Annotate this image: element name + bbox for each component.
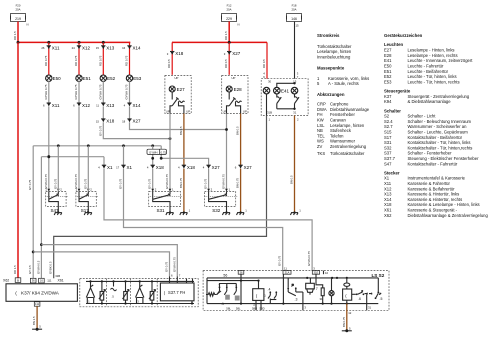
svg-text:Stromkreis: Stromkreis <box>317 33 340 38</box>
E28 gray output to S32 pin 1 <box>222 114 228 192</box>
boxed wire label GYWH 0.75 <box>147 149 166 154</box>
E27 gray output to S31 pin 1 <box>165 114 170 192</box>
svg-text:31A: 31A <box>285 271 290 275</box>
svg-text:E52: E52 <box>107 76 116 81</box>
svg-text:E53: E53 <box>133 76 142 81</box>
fuse F18 20A <box>287 4 302 28</box>
svg-text:GYWH 0.75: GYWH 0.75 <box>74 84 78 99</box>
svg-text:TKS: TKS <box>317 151 325 156</box>
S2 pin 12 ground wire BN 0.75 <box>342 304 352 333</box>
svg-text:Carphone: Carphone <box>330 102 349 107</box>
svg-text:11: 11 <box>96 104 99 108</box>
svg-text:E51: E51 <box>384 69 392 74</box>
svg-text:Warnsummer: Warnsummer <box>330 139 356 144</box>
svg-text:Gerätekurzzeichen: Gerätekurzzeichen <box>384 33 423 38</box>
svg-text:RD 0.75: RD 0.75 <box>44 55 48 66</box>
svg-text:S47: S47 <box>384 161 392 166</box>
svg-text:UP: UP <box>243 110 247 114</box>
svg-text:BN 0.75: BN 0.75 <box>236 177 240 188</box>
legend right column <box>384 33 488 218</box>
svg-text:Kontaktschalter - Beifahrertür: Kontaktschalter - Beifahrertür <box>408 135 463 140</box>
svg-text:Leuchte - Tür, hinten, links: Leuchte - Tür, hinten, links <box>408 74 457 79</box>
svg-text:Leuchte - Innenraum, zeitverzö: Leuchte - Innenraum, zeitverzögert <box>408 58 474 63</box>
svg-text:Warnsummer - Scheinwerfer an: Warnsummer - Scheinwerfer an <box>408 124 468 129</box>
svg-text:X13: X13 <box>384 192 392 197</box>
svg-text:X62: X62 <box>3 278 9 282</box>
svg-text:Instrumententafel & Karosserie: Instrumententafel & Karosserie <box>408 176 466 181</box>
svg-text:Innenbeleuchtung: Innenbeleuchtung <box>317 55 351 60</box>
svg-text:A - Säule, rechts: A - Säule, rechts <box>328 81 359 86</box>
svg-text:GY 0.75: GY 0.75 <box>28 179 32 190</box>
svg-text:KW: KW <box>317 118 324 123</box>
svg-text:E27: E27 <box>177 87 186 92</box>
door contact switch S31 <box>149 188 182 216</box>
svg-text:GYWH: GYWH <box>149 150 157 154</box>
svg-text:X11: X11 <box>384 181 392 186</box>
svg-text:S2: S2 <box>384 114 390 119</box>
wire BK from F18 down to E41 pin 15 <box>294 22 296 79</box>
gray jog wire y=158.3 to X27 and S32 pin 2 <box>160 146 220 192</box>
svg-text:Telefon: Telefon <box>330 133 344 138</box>
gray wire GY 0.5 to FH pin 6 <box>33 252 169 276</box>
svg-text:X61: X61 <box>58 278 64 282</box>
svg-text:X11: X11 <box>52 103 60 108</box>
fuse F20 20A <box>11 4 29 27</box>
svg-text:Karosserie & Steuergerät -: Karosserie & Steuergerät - <box>408 208 458 213</box>
svg-text:X1: X1 <box>384 176 390 181</box>
svg-text:GY 0.75: GY 0.75 <box>278 255 282 266</box>
lamp column E50 <box>41 42 61 191</box>
S2 illumination unit with oval <box>343 278 352 304</box>
svg-text:B: B <box>17 278 19 282</box>
svg-text:ZV: ZV <box>317 144 323 149</box>
svg-text:RD 1.5: RD 1.5 <box>224 31 228 40</box>
svg-text:X12: X12 <box>82 46 91 51</box>
svg-text:K37/ K94 ZV/DWA: K37/ K94 ZV/DWA <box>21 291 60 296</box>
FH cell switch .5 <box>111 280 130 304</box>
svg-text:CRP: CRP <box>317 102 326 107</box>
svg-text:58D: 58D <box>260 307 265 311</box>
red branch to E41 pin 30 <box>262 42 299 79</box>
svg-text:20A: 20A <box>292 8 297 12</box>
svg-text:N: N <box>27 23 29 27</box>
svg-text:E41: E41 <box>384 58 392 63</box>
svg-text:GY 0.75: GY 0.75 <box>148 178 152 189</box>
red bus B <box>172 41 267 44</box>
S2 pin 31A <box>283 266 291 274</box>
svg-text:X18: X18 <box>175 51 184 56</box>
svg-text:X18: X18 <box>384 202 392 207</box>
svg-text:GYWH 0.75: GYWH 0.75 <box>165 174 169 189</box>
svg-text:Leselampe, hinten: Leselampe, hinten <box>317 49 352 54</box>
S2 internal rails <box>207 277 378 305</box>
svg-text:LS S2: LS S2 <box>372 273 385 278</box>
K37 bottom pin 111 and ground wire BN 1.5 <box>32 302 42 331</box>
svg-text:GYWH 0.5: GYWH 0.5 <box>36 260 40 274</box>
svg-text:S2.4: S2.4 <box>384 119 393 124</box>
svg-text:GY 0.75: GY 0.75 <box>204 178 208 189</box>
svg-text:X18: X18 <box>106 119 115 124</box>
svg-text:Karosserie & Fahrertür: Karosserie & Fahrertür <box>408 181 451 186</box>
svg-text:RD 0.75: RD 0.75 <box>98 55 102 66</box>
svg-text:E52: E52 <box>384 74 392 79</box>
svg-text:RD 0.5: RD 0.5 <box>224 59 228 68</box>
svg-text:X18: X18 <box>187 165 196 170</box>
svg-text:E28: E28 <box>384 53 392 58</box>
light switch LS S2 dashed box <box>203 271 389 311</box>
svg-text:BN 0.75: BN 0.75 <box>179 177 183 188</box>
svg-text:E27: E27 <box>384 48 392 53</box>
legend left column <box>317 33 370 156</box>
gray wire line D corner down to K37 pin 16 <box>36 157 42 279</box>
svg-text:Schalter - Beleuchtung Innenra: Schalter - Beleuchtung Innenraum <box>408 119 472 124</box>
svg-text:Caravan: Caravan <box>330 118 346 123</box>
svg-text:31B: 31B <box>267 110 272 114</box>
svg-text:Türkontaktschalter: Türkontaktschalter <box>330 151 365 156</box>
wire from line D down through X1 to S2 pin 31E <box>98 157 312 271</box>
E41 gray output 31B down-left to K37 <box>49 116 271 279</box>
svg-text:15: 15 <box>296 24 300 28</box>
svg-text:X12: X12 <box>82 103 91 108</box>
svg-text:X13: X13 <box>106 46 115 51</box>
svg-text:⟨: ⟨ <box>15 291 17 297</box>
svg-text:219: 219 <box>15 17 21 21</box>
svg-text:Fensterheber: Fensterheber <box>330 112 356 117</box>
svg-text:Leuchten: Leuchten <box>384 42 403 47</box>
svg-text:17: 17 <box>116 166 120 170</box>
S2 element 2 (illumination box) <box>252 280 265 311</box>
svg-text:26: 26 <box>41 46 45 50</box>
svg-text:Kontaktschalter - Fahrertür: Kontaktschalter - Fahrertür <box>408 161 458 166</box>
svg-text:11: 11 <box>284 266 287 270</box>
svg-text:Kontaktschalter - Tür, hinten,: Kontaktschalter - Tür, hinten,rechts <box>408 145 473 150</box>
svg-text:BN 0.5: BN 0.5 <box>236 126 240 135</box>
wire line C to S17 pin 2 <box>83 146 88 192</box>
svg-text:36: 36 <box>32 279 35 283</box>
svg-text:E51: E51 <box>83 76 92 81</box>
svg-text:GY 0.5: GY 0.5 <box>28 265 32 274</box>
svg-text:31E: 31E <box>314 271 319 275</box>
svg-text:E28: E28 <box>234 87 243 92</box>
svg-text:GYWH 0.75: GYWH 0.75 <box>44 84 48 99</box>
svg-text:58L: 58L <box>226 306 231 310</box>
svg-text:& Diebstahlwarnanlage: & Diebstahlwarnanlage <box>408 99 452 104</box>
svg-text:Karosserie & Beifahrertür: Karosserie & Beifahrertür <box>408 186 456 191</box>
svg-text:Leselampe - Hinten, rechts: Leselampe - Hinten, rechts <box>408 53 458 58</box>
control unit K37/K94 ZV/DWA <box>6 278 77 301</box>
svg-text:GY 0.75: GY 0.75 <box>83 178 87 189</box>
svg-text:20A: 20A <box>16 8 21 12</box>
svg-text:RD 0.75: RD 0.75 <box>125 55 129 66</box>
svg-text:X61: X61 <box>384 208 392 213</box>
svg-text:Türkontaktschalter: Türkontaktschalter <box>317 44 352 49</box>
svg-text:Diebstahlwarnanlage & Zentralv: Diebstahlwarnanlage & Zentralverriegelun… <box>408 213 489 218</box>
svg-text:.6: .6 <box>358 297 361 301</box>
reading lamp E28 (dashed box with switch) <box>222 76 248 114</box>
red branch to X18 / E27 <box>167 42 184 74</box>
svg-text:E53: E53 <box>384 79 392 84</box>
wire from line C down through X18 to S31 pin 2 <box>147 146 164 192</box>
svg-text:Steuergeräte: Steuergeräte <box>384 89 411 94</box>
svg-text:X27: X27 <box>244 165 253 170</box>
lamp column E52 <box>96 42 172 140</box>
svg-text:Leselampe, hinten: Leselampe, hinten <box>330 123 365 128</box>
svg-text:Karosserie & Hintertür, links: Karosserie & Hintertür, links <box>408 192 460 197</box>
FH cell rails <box>86 281 194 303</box>
svg-text:16: 16 <box>40 279 43 283</box>
svg-text:20A: 20A <box>227 8 232 12</box>
svg-text:12: 12 <box>348 311 352 315</box>
svg-text:⟨: ⟨ <box>164 290 166 295</box>
svg-text:WS: WS <box>317 139 324 144</box>
svg-text:S17: S17 <box>384 135 392 140</box>
svg-text:Schalter - Licht: Schalter - Licht <box>408 114 437 119</box>
svg-text:Karosserie, vorn, links: Karosserie, vorn, links <box>328 76 369 81</box>
svg-text:0.75: 0.75 <box>161 150 167 154</box>
svg-text:Abkürzungen: Abkürzungen <box>317 92 345 97</box>
svg-text:GYWH 0.75: GYWH 0.75 <box>125 84 129 99</box>
svg-text:X18: X18 <box>156 165 165 170</box>
svg-text:X27: X27 <box>133 119 142 124</box>
svg-text:LSL: LSL <box>317 123 325 128</box>
svg-text:X27: X27 <box>212 165 221 170</box>
svg-text:Schalter: Schalter <box>384 108 401 113</box>
lamp column E51 <box>72 42 92 191</box>
S2 switch .3 <box>287 278 306 310</box>
gray wire line C corner down to K37 pin 36 <box>28 146 34 278</box>
wire line C to S47 pin 2 <box>53 146 58 192</box>
E27 brown output through X18 to ground <box>178 114 195 216</box>
svg-text:GY 0.75: GY 0.75 <box>53 178 57 189</box>
svg-text:30: 30 <box>268 80 272 84</box>
S2 switch .4 <box>264 287 277 303</box>
fuse F12 20A <box>222 4 240 27</box>
svg-text:36: 36 <box>240 271 243 275</box>
svg-text:Diebstahlwarnanlage: Diebstahlwarnanlage <box>330 107 370 112</box>
svg-text:Stufenheck: Stufenheck <box>330 128 352 133</box>
svg-text:229: 229 <box>226 17 232 21</box>
svg-text:Kontaktschalter - Tür, hinten,: Kontaktschalter - Tür, hinten, links <box>408 140 471 145</box>
svg-text:31: 31 <box>368 306 372 310</box>
svg-text:Karosserie & Hintertür, rechts: Karosserie & Hintertür, rechts <box>408 197 463 202</box>
gray bus line C (y=145.8) <box>33 144 161 147</box>
svg-text:Steuergerät - Zentralverriegel: Steuergerät - Zentralverriegelung <box>408 94 470 99</box>
S2 31A internal wire <box>282 274 284 303</box>
S2 headlight rotary switch <box>206 271 244 311</box>
svg-text:UP: UP <box>175 76 179 80</box>
svg-text:E50: E50 <box>384 64 392 69</box>
svg-text:31B: 31B <box>55 274 60 278</box>
svg-text:Leselampe - Hinten, links: Leselampe - Hinten, links <box>408 48 455 53</box>
window lifter assembly dashed box <box>80 279 198 307</box>
svg-text:RD 0.5: RD 0.5 <box>262 59 266 68</box>
S2 switch .6 <box>352 291 373 311</box>
svg-text:.3: .3 <box>295 298 298 302</box>
S2 dimmer plug element 7 <box>306 278 318 295</box>
wire RD 1.5 from F12 to bus <box>224 22 229 43</box>
svg-text:BN 0.75: BN 0.75 <box>342 316 346 327</box>
svg-text:Zentralverriegelung: Zentralverriegelung <box>330 144 367 149</box>
svg-text:S31: S31 <box>384 140 392 145</box>
svg-text:X13: X13 <box>106 103 115 108</box>
svg-text:RD 1.5: RD 1.5 <box>13 31 17 40</box>
svg-text:K37: K37 <box>384 94 392 99</box>
svg-text:X14: X14 <box>384 197 392 202</box>
svg-text:BN 0.5: BN 0.5 <box>290 175 294 184</box>
interior lamp E41 (dashed box, 3 lamps, 2 switches) <box>261 79 308 116</box>
svg-text:Leuchte - Tür, hinten, rechts: Leuchte - Tür, hinten, rechts <box>408 79 460 84</box>
door contact switch S47 <box>45 188 67 216</box>
svg-text:31: 31 <box>293 110 297 114</box>
svg-text:31: 31 <box>320 297 324 301</box>
svg-text:15: 15 <box>96 46 100 50</box>
svg-text:S32: S32 <box>384 145 392 150</box>
svg-text:GY 0.75: GY 0.75 <box>165 261 169 272</box>
svg-text:BN 0.5: BN 0.5 <box>179 126 183 135</box>
svg-text:X1: X1 <box>107 165 113 170</box>
red branch to X27 / E28 <box>224 42 241 74</box>
svg-text:7: 7 <box>316 287 318 291</box>
reading lamp E27 (dashed box with switch) <box>165 76 191 114</box>
E41 brown output 31 to ground <box>290 116 302 216</box>
svg-text:Schalter - Leuchte, Gepäckraum: Schalter - Leuchte, Gepäckraum <box>408 130 469 135</box>
svg-text:S2.7: S2.7 <box>384 124 393 129</box>
svg-text:BN 1.5: BN 1.5 <box>32 316 36 325</box>
svg-text:X1: X1 <box>127 165 133 170</box>
wire from line C down through X1 to S2 pin 31A <box>116 146 283 271</box>
svg-text:111: 111 <box>47 278 52 282</box>
svg-text:RD 0.75: RD 0.75 <box>74 55 78 66</box>
svg-text:Karosserie & Leselampe - Hinte: Karosserie & Leselampe - Hinten, links <box>408 202 480 207</box>
svg-text:X12: X12 <box>384 186 392 191</box>
connector X62 pin B <box>3 278 21 283</box>
svg-text:X14: X14 <box>133 103 142 108</box>
svg-text:S15: S15 <box>384 130 392 135</box>
svg-text:16: 16 <box>122 46 126 50</box>
svg-text:X11: X11 <box>52 46 60 51</box>
svg-text:S37.7 FH: S37.7 FH <box>168 290 185 295</box>
svg-text:NB: NB <box>317 128 323 133</box>
S2 instrument lamp <box>329 278 334 304</box>
S2 31E internal wire to resistor <box>316 274 324 303</box>
svg-text:GYWH 0.75: GYWH 0.75 <box>222 174 226 189</box>
svg-text:K94: K94 <box>384 99 392 104</box>
svg-text:58L: 58L <box>236 306 241 310</box>
svg-text:N: N <box>238 23 240 27</box>
svg-text:S31: S31 <box>157 208 166 213</box>
red bus A <box>17 41 131 44</box>
svg-text:GYWH 0.75: GYWH 0.75 <box>307 251 311 266</box>
E28 brown output through X27 to ground <box>235 114 252 216</box>
svg-text:⟨: ⟨ <box>256 293 258 298</box>
svg-text:Steuerung - Elektrischer Fenst: Steuerung - Elektrischer Fensterheber <box>408 156 480 161</box>
svg-text:⟨: ⟨ <box>345 294 347 299</box>
svg-text:15: 15 <box>96 119 100 123</box>
svg-text:Massepunkte: Massepunkte <box>317 66 345 71</box>
svg-text:S32: S32 <box>212 208 221 213</box>
svg-text:111: 111 <box>35 302 40 306</box>
door contact switch S17 <box>75 188 97 216</box>
door contact switch S32 <box>205 188 238 216</box>
svg-text:Stecker: Stecker <box>384 170 400 175</box>
svg-text:GYBK 0.5: GYBK 0.5 <box>49 261 53 274</box>
svg-text:TEL: TEL <box>317 133 325 138</box>
svg-text:DWA: DWA <box>317 107 327 112</box>
svg-text:10: 10 <box>325 271 329 275</box>
svg-text:GY 0.75: GY 0.75 <box>119 178 123 189</box>
svg-text:GYWH 0.75: GYWH 0.75 <box>172 257 176 272</box>
svg-text:UP: UP <box>166 110 170 114</box>
gray wire GYWH 0.5 to FH pin 7 <box>41 245 177 277</box>
svg-text:S37.7: S37.7 <box>384 156 396 161</box>
svg-text:Leuchte - Fahrertür: Leuchte - Fahrertür <box>408 64 444 69</box>
svg-text:GYWH 0.75: GYWH 0.75 <box>98 84 102 99</box>
svg-text:18: 18 <box>122 119 126 123</box>
svg-text:RD 1.5: RD 1.5 <box>13 265 17 274</box>
red feed wire left edge down to X62/K37 <box>13 42 18 278</box>
svg-text:E50: E50 <box>53 76 62 81</box>
svg-text:X14: X14 <box>133 46 142 51</box>
svg-text:GY 0.75: GY 0.75 <box>98 125 102 136</box>
svg-text:UP: UP <box>232 76 236 80</box>
svg-text:.5: .5 <box>380 297 383 301</box>
svg-text:UP: UP <box>186 110 190 114</box>
lamp column E53 <box>122 42 226 129</box>
S2 switch .5 <box>375 278 383 301</box>
S2 pin 31E <box>312 266 328 275</box>
svg-text:Leuchte - Beifahrertür: Leuchte - Beifahrertür <box>408 69 449 74</box>
FH cell switch .1 <box>86 280 105 304</box>
svg-text:146: 146 <box>291 17 297 21</box>
svg-text:X27: X27 <box>232 51 241 56</box>
svg-text:UP: UP <box>223 110 227 114</box>
svg-text:RD 0.5: RD 0.5 <box>167 59 171 68</box>
svg-text:.4: .4 <box>268 287 271 291</box>
svg-text:56: 56 <box>223 274 227 278</box>
svg-text:FH: FH <box>317 112 323 117</box>
FH cell switch .3 <box>136 280 156 304</box>
svg-text:X62: X62 <box>384 213 392 218</box>
svg-text:Schalter - Fensterheber: Schalter - Fensterheber <box>408 151 453 156</box>
wire RD 1.5 from F20 to bus <box>13 22 18 43</box>
window lifter control S37.7 FH <box>160 274 194 305</box>
svg-text:E41: E41 <box>281 88 290 93</box>
svg-text:S37: S37 <box>384 151 392 156</box>
svg-text:24: 24 <box>72 46 76 50</box>
gray bus line D (y=156.7) <box>41 155 104 158</box>
svg-text:.1: .1 <box>221 302 224 306</box>
